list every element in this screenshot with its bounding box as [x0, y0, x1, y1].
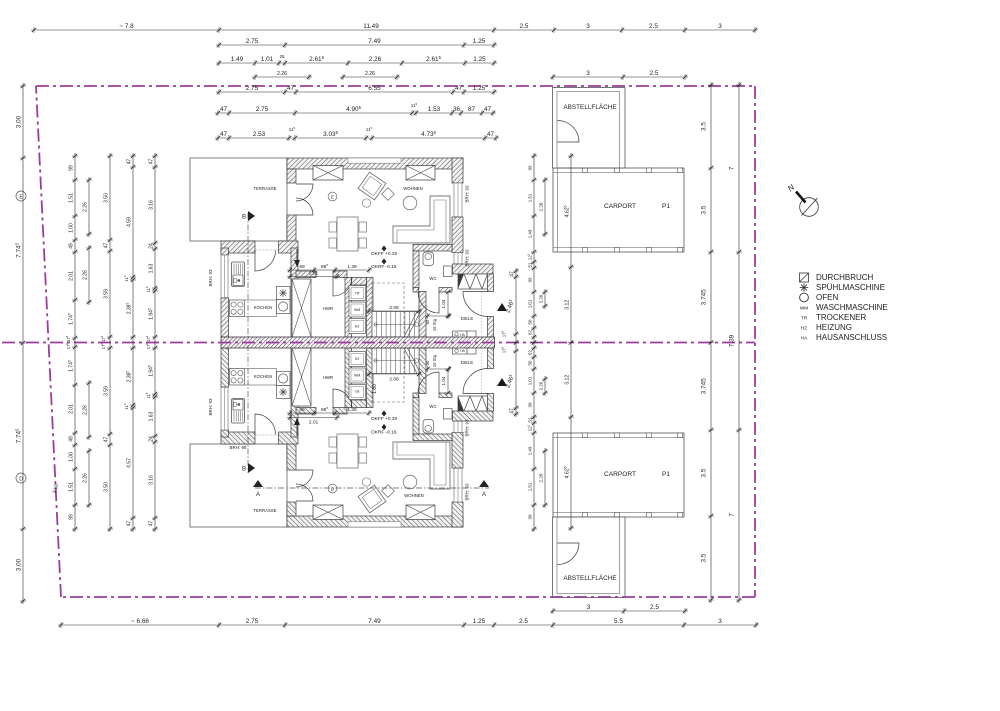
top wall — [287, 516, 463, 527]
svg-text:90: 90 — [425, 360, 430, 365]
svg-text:CARPORT: CARPORT — [604, 471, 636, 478]
svg-text:1.25: 1.25 — [473, 38, 486, 45]
svg-text:1.49: 1.49 — [527, 446, 532, 455]
svg-text:TR: TR — [355, 292, 360, 296]
kitchen door — [255, 251, 276, 272]
svg-text:24: 24 — [148, 243, 154, 249]
wc bottom wall west stub — [413, 288, 419, 293]
svg-text:3.5: 3.5 — [701, 468, 708, 477]
svg-text:2.26: 2.26 — [82, 270, 88, 280]
svg-text:47: 47 — [126, 521, 132, 527]
svg-text:3.12: 3.12 — [564, 375, 570, 385]
coffee table — [403, 475, 417, 489]
technik boxes TR WM HZ — [349, 385, 366, 400]
svg-text:11.49: 11.49 — [363, 23, 379, 30]
vchain x516 — [509, 268, 519, 417]
svg-text:1.25: 1.25 — [473, 85, 486, 92]
kitchen sink unit — [233, 400, 243, 411]
vchain x571 — [563, 153, 574, 531]
interior dim lower — [287, 406, 372, 416]
svg-text:HZ: HZ — [355, 325, 360, 329]
hob 4 circles — [230, 369, 245, 386]
abstell door leaf — [558, 543, 580, 565]
svg-text:49: 49 — [68, 243, 74, 249]
svg-text:TERRASSE: TERRASSE — [253, 186, 276, 191]
carport upper — [553, 433, 684, 517]
french door leaf lower — [296, 470, 313, 487]
vchain x545a — [538, 177, 548, 237]
east wall seg1 — [488, 394, 494, 412]
svg-text:B: B — [242, 467, 246, 473]
svg-text:1.80: 1.80 — [372, 384, 378, 394]
svg-text:47: 47 — [455, 85, 463, 92]
svg-text:3.16: 3.16 — [148, 200, 154, 210]
left wall seg2 — [287, 437, 296, 470]
vchain x545b — [538, 289, 548, 309]
svg-text:47: 47 — [220, 131, 228, 138]
vchain x155 — [147, 153, 158, 532]
vchain x75 — [67, 153, 78, 532]
right wall seg1 — [452, 158, 463, 183]
svg-text:1.00: 1.00 — [68, 452, 74, 462]
svg-text:2.5: 2.5 — [520, 23, 529, 30]
wc top wall — [413, 245, 452, 252]
svg-text:4.57: 4.57 — [126, 458, 132, 468]
kitchen counter — [245, 369, 277, 386]
stairs — [372, 348, 419, 374]
vchain x711 — [701, 82, 715, 603]
svg-text:36: 36 — [453, 106, 461, 113]
grid bubble E plan — [328, 192, 337, 201]
svg-text:7.39: 7.39 — [729, 334, 736, 347]
svg-text:2.26: 2.26 — [277, 71, 287, 77]
window east — [454, 468, 462, 502]
entry door — [463, 292, 488, 317]
french door leaf lower — [296, 198, 313, 215]
wall hwr/technik — [345, 348, 352, 408]
svg-text:47: 47 — [148, 159, 154, 165]
building lower unit (mirrored) — [190, 348, 684, 598]
svg-text:7.49: 7.49 — [368, 618, 381, 625]
wc sink — [444, 409, 453, 420]
svg-text:TROCKENER: TROCKENER — [816, 313, 866, 322]
svg-text:99: 99 — [527, 402, 532, 407]
svg-text:ABSTELLFLÄCHE: ABSTELLFLÄCHE — [563, 103, 616, 111]
svg-text:3.50: 3.50 — [103, 193, 109, 203]
svg-text:3: 3 — [587, 604, 591, 611]
armchair — [358, 172, 386, 200]
oven — [277, 372, 291, 386]
annex top wall — [453, 264, 494, 274]
svg-text:3: 3 — [586, 23, 590, 30]
vchain x739 — [729, 82, 743, 603]
svg-text:99: 99 — [68, 514, 74, 520]
svg-text:1.04: 1.04 — [441, 376, 446, 385]
svg-text:3.745: 3.745 — [701, 378, 708, 394]
hwr top wall west — [296, 271, 316, 278]
dim row2 — [216, 38, 497, 48]
svg-text:5.5: 5.5 — [614, 618, 623, 625]
svg-text:175 175: 175 175 — [145, 335, 151, 349]
svg-text:1.51: 1.51 — [527, 482, 532, 491]
svg-text:2.75: 2.75 — [246, 618, 259, 625]
dim row tr — [550, 70, 688, 80]
dim row5 — [215, 105, 496, 116]
svg-text:3.5: 3.5 — [701, 122, 708, 131]
abstell door leaf — [558, 121, 580, 143]
window east small — [454, 253, 462, 265]
svg-text:3.745: 3.745 — [701, 289, 708, 305]
svg-text:HA: HA — [801, 336, 808, 342]
vchain x110 — [103, 153, 113, 532]
abstellflaeche upper — [553, 517, 626, 598]
svg-text:1.01: 1.01 — [527, 376, 532, 385]
legend row SPÜHLMASCHINE — [805, 287, 808, 289]
technik boxes TR WM HZ — [349, 286, 366, 301]
svg-text:1.25: 1.25 — [473, 618, 486, 625]
vchain x23 — [14, 83, 26, 604]
arrow lower — [296, 424, 298, 436]
section line B — [247, 213, 249, 340]
svg-text:HAUSANSCHLUSS: HAUSANSCHLUSS — [816, 333, 887, 342]
svg-text:175 175: 175 175 — [100, 335, 106, 349]
svg-text:47: 47 — [148, 521, 154, 527]
svg-text:1.51: 1.51 — [527, 193, 532, 202]
dim bottom2 — [550, 604, 688, 614]
svg-text:49: 49 — [68, 436, 74, 442]
oven — [277, 300, 291, 314]
toilet — [423, 420, 434, 434]
legend row OFEN — [800, 293, 809, 302]
svg-text:HZ: HZ — [355, 357, 360, 361]
wall kitchen/hwr — [291, 248, 298, 337]
left wall seg2 — [287, 215, 296, 248]
level mark — [382, 259, 387, 265]
svg-text:25: 25 — [279, 54, 285, 59]
north arrow — [800, 198, 819, 217]
svg-text:47: 47 — [126, 159, 132, 165]
wall technik/stair — [367, 278, 374, 338]
kitchen top wall west — [221, 432, 255, 444]
svg-text:2.75: 2.75 — [246, 85, 259, 92]
svg-text:3: 3 — [718, 618, 722, 625]
grid bubble E — [16, 191, 26, 201]
sofa — [393, 196, 450, 243]
svg-text:BRH: 93: BRH: 93 — [208, 269, 213, 287]
entry door — [463, 369, 488, 394]
svg-text:DIELE: DIELE — [461, 316, 474, 321]
french door leaf upper — [296, 184, 313, 201]
level mark — [382, 411, 387, 417]
kitchen west wall seg2 — [221, 348, 229, 387]
svg-text:DIELE: DIELE — [461, 360, 474, 365]
svg-text:2.01: 2.01 — [309, 271, 319, 277]
party wall — [221, 337, 495, 348]
svg-text:1.53: 1.53 — [428, 106, 441, 113]
svg-text:2.26: 2.26 — [369, 56, 382, 63]
svg-text:1.49: 1.49 — [527, 229, 532, 238]
svg-text:WC: WC — [429, 276, 436, 281]
svg-text:2.26: 2.26 — [538, 473, 543, 482]
svg-text:2.01: 2.01 — [68, 271, 74, 281]
annex top wall — [453, 411, 494, 421]
svg-text:BRH: 93: BRH: 93 — [465, 419, 470, 437]
svg-text:87: 87 — [468, 106, 476, 113]
stairs dim upper — [366, 305, 422, 314]
wc bottom wall west stub — [413, 393, 419, 398]
svg-text:99: 99 — [527, 165, 532, 170]
svg-text:1.39: 1.39 — [347, 264, 357, 270]
svg-text:3.59: 3.59 — [103, 289, 109, 299]
east wall seg2 — [488, 317, 494, 338]
hob 4 circles — [230, 300, 245, 317]
svg-text:47: 47 — [484, 106, 492, 113]
window top-left — [313, 505, 343, 520]
wc door — [418, 372, 439, 393]
svg-text:ABSTELLFLÄCHE: ABSTELLFLÄCHE — [563, 574, 616, 582]
kitchen west wall seg1 — [221, 248, 229, 255]
durchbruch opening — [458, 396, 488, 411]
wc west wall — [413, 396, 419, 434]
svg-text:WOHNEN: WOHNEN — [404, 493, 424, 498]
svg-text:A: A — [482, 492, 486, 498]
hwr top wall east — [333, 408, 347, 415]
svg-text:CARPORT: CARPORT — [604, 203, 636, 210]
svg-text:2.53: 2.53 — [253, 131, 266, 138]
window east small — [454, 421, 462, 433]
hwr shelf — [292, 279, 311, 337]
kitchen top wall east — [279, 241, 299, 253]
svg-text:HWR: HWR — [323, 375, 333, 380]
window top-left — [313, 166, 343, 181]
wall stair east — [419, 348, 426, 394]
kitchen top wall east — [279, 432, 299, 444]
dining table — [337, 434, 358, 468]
svg-text:62: 62 — [527, 350, 532, 355]
svg-text:4.59: 4.59 — [126, 217, 132, 227]
svg-text:TERRASSE: TERRASSE — [253, 508, 276, 513]
svg-text:2.26: 2.26 — [538, 202, 543, 211]
svg-text:47: 47 — [103, 437, 109, 443]
svg-text:3: 3 — [586, 70, 590, 77]
wc door — [418, 292, 439, 313]
legend row DURCHBRUCH — [800, 273, 809, 282]
svg-text:2.26: 2.26 — [82, 473, 88, 483]
svg-text:2.08: 2.08 — [389, 305, 399, 311]
svg-text:47: 47 — [509, 408, 515, 414]
entry marker lower — [497, 378, 507, 386]
kitchen top wall west — [221, 241, 255, 253]
window east — [454, 183, 462, 217]
svg-text:99: 99 — [68, 165, 74, 171]
svg-text:SPÜHLMASCHINE: SPÜHLMASCHINE — [816, 283, 885, 292]
svg-text:1.01: 1.01 — [261, 56, 274, 63]
svg-text:47: 47 — [509, 271, 515, 277]
svg-text:BRH: 93: BRH: 93 — [465, 483, 470, 501]
level mark — [382, 246, 387, 252]
svg-text:E: E — [331, 195, 334, 200]
dim row1 — [31, 23, 758, 33]
svg-text:D: D — [19, 476, 23, 482]
svg-text:90: 90 — [425, 319, 430, 324]
armchair — [358, 485, 386, 513]
svg-text:OKRF -0.16: OKRF -0.16 — [371, 430, 397, 436]
dim bottom — [58, 618, 759, 628]
kitchen tall cabinet — [232, 399, 245, 424]
interior dim upper — [287, 263, 372, 273]
level mark — [382, 424, 387, 430]
grid bubble D — [16, 473, 26, 483]
svg-text:P1: P1 — [662, 203, 670, 210]
svg-text:2.08: 2.08 — [389, 377, 399, 383]
svg-text:2.26: 2.26 — [538, 381, 543, 390]
wc sink — [444, 266, 453, 277]
dim row3b-2 — [340, 71, 400, 80]
stairs — [372, 312, 419, 338]
dining table — [337, 217, 358, 251]
dim 90 lower — [428, 368, 450, 370]
hwr door — [333, 277, 352, 296]
svg-text:3.00: 3.00 — [15, 115, 22, 128]
svg-text:~ 6.66: ~ 6.66 — [131, 618, 149, 625]
hwr shelf — [292, 348, 311, 406]
vchain x89a — [82, 177, 92, 237]
svg-text:WM: WM — [354, 374, 360, 378]
grid bubble D plan — [328, 484, 337, 493]
durchbruch opening — [458, 274, 488, 289]
dishwasher — [277, 287, 291, 300]
svg-text:1.25: 1.25 — [473, 56, 486, 63]
svg-text:2.5: 2.5 — [650, 70, 659, 77]
wc top wall — [413, 434, 452, 441]
svg-text:BRH: 95: BRH: 95 — [229, 445, 247, 450]
kitchen counter — [245, 300, 277, 317]
wc bottom wall east stub — [439, 288, 452, 293]
interior dim upper sub — [287, 271, 340, 280]
svg-text:1.51: 1.51 — [68, 482, 74, 492]
svg-text:1.63: 1.63 — [148, 263, 154, 273]
kitchen west wall seg2 — [221, 298, 229, 337]
vchain x545d — [538, 448, 548, 508]
svg-text:1.00: 1.00 — [68, 223, 74, 233]
window top-right — [406, 166, 435, 181]
svg-text:HEIZUNG: HEIZUNG — [816, 323, 852, 332]
svg-text:47: 47 — [103, 243, 109, 249]
kitchen sink unit — [233, 275, 243, 286]
svg-text:1.01: 1.01 — [527, 299, 532, 308]
window top-right — [406, 505, 435, 520]
svg-text:2.01: 2.01 — [68, 404, 74, 414]
svg-text:50: 50 — [527, 319, 532, 324]
svg-text:2.75: 2.75 — [246, 38, 259, 45]
svg-text:BRH: 93: BRH: 93 — [465, 249, 470, 267]
svg-text:KOCHEN: KOCHEN — [254, 305, 272, 310]
svg-text:BRH: 93: BRH: 93 — [465, 185, 470, 203]
svg-text:99: 99 — [527, 277, 532, 282]
hwr door — [333, 389, 352, 408]
svg-text:P1: P1 — [662, 471, 670, 478]
svg-text:OKRF -0.16: OKRF -0.16 — [371, 264, 397, 270]
svg-text:51: 51 — [527, 262, 532, 267]
hwr top wall east — [333, 271, 347, 278]
svg-text:3.12: 3.12 — [564, 300, 570, 310]
svg-text:OFEN: OFEN — [816, 293, 838, 302]
svg-text:99: 99 — [299, 264, 305, 270]
svg-text:OKFF +0.30: OKFF +0.30 — [371, 416, 398, 422]
svg-text:HWR: HWR — [323, 306, 333, 311]
svg-text:WOHNEN: WOHNEN — [403, 186, 423, 191]
svg-text:HZ: HZ — [801, 326, 807, 332]
wall technik/stair — [367, 348, 374, 408]
east wall seg1 — [488, 274, 494, 292]
HA box — [453, 348, 468, 355]
svg-text:DURCHBRUCH: DURCHBRUCH — [816, 273, 874, 282]
svg-text:TR: TR — [355, 390, 360, 394]
section line A — [255, 487, 489, 489]
svg-text:A: A — [256, 492, 260, 498]
east wall seg2 — [488, 348, 494, 369]
svg-text:62: 62 — [527, 330, 532, 335]
vchain x89d — [82, 448, 92, 508]
dim row6 — [215, 130, 499, 141]
abstellflaeche upper — [553, 88, 626, 169]
svg-text:7.49: 7.49 — [368, 38, 381, 45]
svg-text:47: 47 — [220, 106, 228, 113]
arrow upper — [296, 249, 298, 261]
svg-text:3.59: 3.59 — [103, 386, 109, 396]
svg-text:99: 99 — [299, 407, 305, 413]
vchain x89c — [82, 380, 92, 440]
wall hwr/technik — [345, 278, 352, 338]
svg-text:WASCHMASCHINE: WASCHMASCHINE — [816, 303, 888, 312]
top wall — [287, 158, 463, 169]
svg-text:1.49: 1.49 — [231, 56, 244, 63]
vchain x534 — [526, 153, 537, 532]
svg-text:2.26: 2.26 — [538, 294, 543, 303]
svg-text:7: 7 — [729, 166, 736, 170]
svg-text:24: 24 — [148, 436, 154, 442]
wc west wall — [413, 251, 419, 289]
terrace outline upper — [190, 444, 287, 527]
stair node circles — [415, 323, 419, 327]
dim 1.04 lower — [447, 369, 449, 393]
terrace outline upper — [190, 158, 287, 241]
svg-text:2.5: 2.5 — [649, 23, 658, 30]
coffee table — [403, 196, 417, 210]
svg-text:2.75: 2.75 — [256, 106, 269, 113]
right wall seg2 — [452, 217, 463, 253]
svg-text:WM: WM — [354, 308, 360, 312]
dim row3 — [216, 55, 497, 66]
svg-text:1.51: 1.51 — [68, 193, 74, 203]
dim 1.04 upper — [447, 292, 449, 316]
svg-text:99: 99 — [527, 514, 532, 519]
stair void dashed — [372, 283, 404, 337]
dim row3b-1 — [252, 71, 312, 80]
svg-text:B: B — [242, 215, 246, 221]
right wall seg1 — [452, 502, 463, 527]
building upper unit — [190, 88, 684, 338]
hwr top wall west — [296, 408, 316, 415]
HA box — [453, 331, 468, 338]
entry marker upper — [497, 303, 507, 311]
svg-text:6.55: 6.55 — [368, 85, 381, 92]
svg-text:KOCHEN: KOCHEN — [254, 374, 272, 379]
sofa — [393, 442, 450, 489]
svg-text:2.26: 2.26 — [82, 202, 88, 212]
right wall seg2 — [452, 433, 463, 469]
vchain x133 — [125, 153, 136, 532]
